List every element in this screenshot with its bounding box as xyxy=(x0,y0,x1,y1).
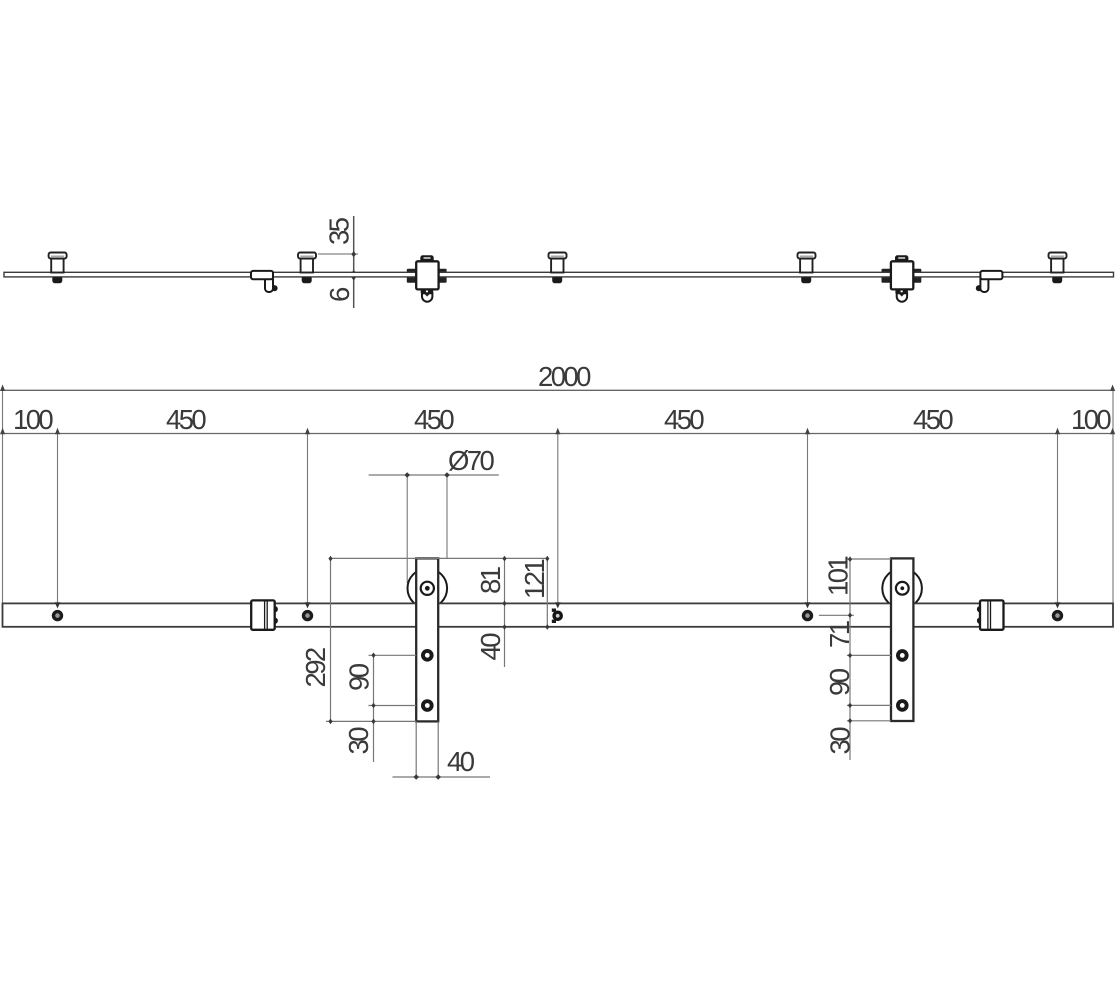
rail mounting hole 2 xyxy=(302,602,313,621)
H1 strap width dim 40: extension lines xyxy=(415,722,417,779)
svg-text:71: 71 xyxy=(824,621,855,648)
svg-text:292: 292 xyxy=(300,648,331,687)
hanger H2 upper strap hole xyxy=(896,649,909,662)
bolt B1 (top view) xyxy=(49,253,67,284)
bolt B3 (top view, at rail joint) xyxy=(549,253,567,284)
H2 strap-bottom extension tick xyxy=(847,720,891,722)
rail joint screw (center) xyxy=(552,602,563,623)
H2 dimension line 101/71/90/30 xyxy=(849,559,851,760)
door stop S2 (front view, right, mirrored) xyxy=(977,600,1004,629)
svg-text:100: 100 xyxy=(1071,404,1111,435)
rail (top view, seen edge-on) xyxy=(4,272,1114,277)
roller hanger U1 left flange (top view) xyxy=(407,269,447,283)
svg-text:Ø70: Ø70 xyxy=(448,445,494,476)
H1 dimension line 90/30 xyxy=(373,655,375,762)
svg-text:40: 40 xyxy=(475,633,506,661)
dimension line vertical for 35 and 6 xyxy=(353,216,355,308)
H1 dimension line 292 xyxy=(330,558,332,721)
roller hanger U2 (top view) cap, body, bottom hook xyxy=(891,255,913,301)
dimension line 2000 xyxy=(0,385,1115,392)
rail mounting hole 4 xyxy=(1052,602,1063,621)
arrow marks on hanger dimension lines xyxy=(328,472,852,780)
hanger H1 upper strap hole xyxy=(421,649,434,662)
svg-text:101: 101 xyxy=(823,557,854,596)
svg-text:30: 30 xyxy=(343,727,374,755)
rail (front view) xyxy=(3,603,1114,626)
dimension Ø70 label and leaders xyxy=(369,445,499,583)
H2 upper hole extension tick xyxy=(847,654,891,656)
extension line x=550mm xyxy=(307,434,309,610)
H1 lower hole extension tick xyxy=(369,705,417,707)
svg-text:30: 30 xyxy=(825,727,856,755)
door stop S2 (top view, right, mirrored) xyxy=(976,271,1003,292)
svg-text:81: 81 xyxy=(475,567,506,594)
wheel of hanger H2 (front view) xyxy=(882,569,922,609)
roller hanger U2 flanges (top view) xyxy=(882,269,922,283)
hanger strap H2 (front view) xyxy=(891,558,913,721)
extension line x=100mm xyxy=(57,434,59,610)
svg-text:450: 450 xyxy=(166,404,206,435)
svg-text:40: 40 xyxy=(447,746,475,777)
door stop S1 (front view, left) xyxy=(251,600,278,629)
svg-text:90: 90 xyxy=(344,663,375,691)
svg-text:450: 450 xyxy=(664,404,704,435)
hanger strap H1 (front view) xyxy=(416,558,438,721)
arrow marks on 35/6 dimension line xyxy=(351,251,356,281)
dimension 35 extension line (top of bolt cap level) xyxy=(318,253,358,255)
rail mounting hole 3 xyxy=(802,602,813,621)
svg-text:100: 100 xyxy=(13,404,53,435)
rail mounting hole 1 xyxy=(52,602,63,621)
extension line left edge xyxy=(2,390,4,603)
svg-text:450: 450 xyxy=(414,404,454,435)
svg-text:121: 121 xyxy=(519,560,550,599)
H1 dimension line 121 xyxy=(546,558,548,627)
wheel of hanger H1 (front view) xyxy=(408,569,448,609)
H1 dimension line 81/40 xyxy=(504,558,506,667)
roller hanger U1 (top view) cap, body, bottom hook xyxy=(416,255,438,301)
H2 lower hole extension tick xyxy=(847,704,891,706)
svg-text:450: 450 xyxy=(913,404,953,435)
bolt B2 (top view) xyxy=(298,253,316,284)
H1 strap-top extension line xyxy=(329,557,547,559)
svg-text:2000: 2000 xyxy=(538,361,591,392)
svg-text:35: 35 xyxy=(324,217,355,245)
hanger H2 lower strap hole xyxy=(896,699,909,712)
extension line right edge xyxy=(1112,390,1114,603)
H1 upper hole extension tick xyxy=(369,654,417,656)
H2 hole-center extension tick xyxy=(819,614,854,616)
H2 strap-top extension line xyxy=(847,558,891,560)
H1 strap width dim 40: dimension line xyxy=(393,776,491,778)
hanger H1 lower strap hole xyxy=(421,699,434,712)
H1 strap-bottom extension tick xyxy=(326,720,416,722)
svg-text:90: 90 xyxy=(824,668,855,696)
dimension line 100/450/450/450/450/100 xyxy=(0,428,1115,435)
door stop S1 (top view, left) xyxy=(251,271,278,292)
bolt B5 (top view) xyxy=(1049,253,1067,284)
extension line x=1450mm xyxy=(807,434,809,610)
bolt B4 (top view) xyxy=(798,253,816,284)
extension line x=1000mm (rail joint) xyxy=(557,434,559,610)
extension line x=1900mm xyxy=(1057,434,1059,610)
hanger H2 axle bolt xyxy=(896,582,909,595)
hanger H1 axle bolt xyxy=(421,582,434,595)
